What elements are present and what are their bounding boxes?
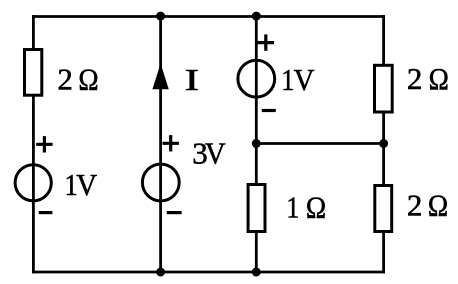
svg-text:V: V [205,136,226,170]
resistor R4 2ohm bottom right [375,186,392,232]
plus sign V2 [163,142,179,145]
wire middle branch I [159,17,162,273]
wire top rail [32,15,385,18]
svg-text:1: 1 [281,63,294,97]
minus sign V3 [262,109,276,112]
wire middle rail [256,142,383,145]
source V1 1V left circle [15,165,51,201]
wire left branch [32,15,35,273]
source V2 3V middle circle [142,164,179,201]
svg-text:V: V [294,63,315,97]
svg-text:Ω: Ω [429,63,449,97]
plus sign V1 [36,143,52,146]
wire right branch [382,15,385,273]
plus sign V3 [258,41,274,44]
minus sign V2 [167,211,182,214]
svg-text:2: 2 [407,188,423,223]
svg-text:2: 2 [407,61,423,96]
resistor R2 2ohm top right [375,65,393,112]
svg-text:Ω: Ω [306,191,326,225]
junction dot top middle branch [156,12,165,21]
junction dot middle rail left [252,139,261,148]
junction dot top source branch [252,12,261,21]
current arrow I [152,64,168,90]
junction dot bottom source branch [252,268,261,277]
svg-text:Ω: Ω [428,189,448,223]
wire bottom rail [32,271,385,274]
junction dot middle rail right [379,139,388,148]
svg-text:1: 1 [286,190,299,224]
svg-text:Ω: Ω [78,63,98,97]
wire source branch [255,17,258,273]
minus sign V1 [39,211,53,214]
svg-text:2: 2 [57,62,73,97]
source V3 1V upper circle [238,60,275,97]
junction dot bottom middle branch [156,268,165,277]
svg-text:I: I [185,63,199,98]
resistor R3 1ohm bottom middle [248,185,265,232]
svg-text:V: V [76,168,97,202]
resistor R1 2ohm left [25,50,42,96]
